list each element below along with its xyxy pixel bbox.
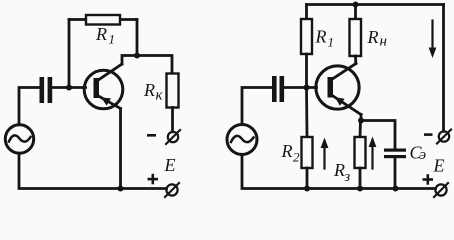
label E (left): [164, 155, 176, 175]
svg-text:R: R: [333, 160, 345, 180]
node emitter-bottom junction (left): [118, 186, 124, 192]
label C3: [410, 143, 427, 164]
transistor VT2 (PNP, right circuit): [316, 64, 361, 115]
svg-text:2: 2: [293, 150, 300, 165]
label R3: [333, 160, 351, 185]
wire from R3 bottom to bottom wire: [359, 168, 362, 189]
svg-text:н: н: [380, 34, 387, 50]
wire from base node down to R2: [305, 88, 308, 138]
resistor R1 (left circuit, horizontal box): [86, 15, 120, 25]
svg-text:к: к: [156, 88, 164, 104]
node base junction (left): [66, 85, 72, 91]
label E (right): [433, 156, 445, 176]
svg-text:з: з: [344, 169, 351, 185]
wire from AC bottom along bottom to plus terminal (right): [242, 155, 436, 189]
minus sign (left E): [147, 134, 156, 137]
arrow current direction (down, right loop): [429, 21, 437, 59]
wire top loop right circuit: [307, 3, 444, 6]
label Rn: [367, 27, 387, 50]
wire from C3 bottom to bottom wire: [394, 158, 397, 188]
wire from R1 bottom to base node: [305, 54, 308, 88]
wire base lead from capacitor to transistor (right): [284, 86, 316, 89]
label R1 (right): [315, 27, 335, 50]
node R2 bottom junction: [304, 186, 310, 192]
AC source G1: [5, 125, 33, 153]
resistor R2 (vertical box): [302, 137, 313, 168]
svg-text:R: R: [281, 141, 293, 161]
plus sign (right E): [423, 174, 434, 185]
wire from Rn bottom to collector: [354, 56, 357, 64]
node collector junction with R1 feedback: [134, 53, 140, 59]
wire from R1 right end down to collector wire: [136, 20, 139, 56]
terminal plus (left, circle with slash): [165, 183, 179, 197]
wire right edge from top wire down to minus terminal: [442, 5, 445, 132]
svg-text:э: э: [420, 147, 427, 163]
label R2: [281, 141, 301, 165]
capacitor coupling (right circuit): [272, 76, 284, 102]
wire from Rk bottom to minus terminal: [171, 108, 174, 132]
AC source G2: [227, 125, 257, 155]
terminal minus (left, circle with slash): [166, 130, 180, 144]
svg-text:R: R: [315, 27, 327, 47]
svg-text:R: R: [143, 80, 155, 100]
resistor R1 (right circuit, vertical box): [301, 19, 312, 54]
capacitor coupling (left circuit): [40, 77, 53, 103]
label R1: [95, 24, 115, 47]
node Rn top junction: [353, 2, 359, 8]
plus sign (left E): [148, 174, 159, 185]
wire from capacitor left to AC source: [19, 88, 40, 125]
wire from capacitor left to AC source (right): [242, 88, 272, 125]
svg-text:E: E: [164, 155, 176, 175]
arrow up beside R2: [321, 138, 329, 169]
resistor R3 (emitter resistor, vertical box): [355, 137, 366, 168]
wire Rn branch from top node down to box: [354, 5, 357, 20]
wire from emitter node right and down to C3 top: [361, 121, 395, 149]
transistor VT1 (PNP, left circuit): [84, 64, 123, 109]
wire from R1 left end down to base node: [68, 20, 71, 88]
svg-text:1: 1: [109, 32, 116, 47]
wire from top wire down to R1 top: [305, 5, 308, 20]
node emitter junction: [358, 118, 364, 124]
wire from AC source bottom along bottom to plus terminal: [19, 153, 167, 188]
svg-text:E: E: [433, 156, 445, 176]
terminal minus (right, circle with slash): [437, 130, 451, 144]
wire top loop left circuit: [69, 18, 137, 21]
capacitor C3 (emitter bypass, horizontal plates): [384, 149, 406, 159]
node R3 bottom junction: [357, 186, 363, 192]
wire from emitter node down to R3: [359, 121, 362, 138]
wire emitter down to bottom wire: [119, 109, 122, 189]
wire from R2 bottom to bottom wire: [306, 168, 309, 189]
minus sign (right E): [424, 133, 433, 136]
wire emitter down to emitter node: [360, 115, 363, 122]
node base junction (right): [304, 85, 310, 91]
wire collector up and right to Rk branch: [122, 56, 172, 74]
node C3 bottom junction: [393, 186, 399, 192]
terminal plus (right, circle with slash): [434, 183, 448, 197]
svg-text:1: 1: [328, 35, 335, 50]
wire base lead from capacitor to transistor: [52, 86, 85, 89]
svg-text:R: R: [367, 27, 379, 47]
label Rk: [143, 80, 164, 104]
svg-text:R: R: [95, 24, 107, 44]
arrow up beside R3: [369, 137, 377, 169]
resistor Rk (left circuit load, vertical box): [167, 74, 179, 108]
resistor Rn (right circuit, vertical box): [350, 19, 362, 56]
